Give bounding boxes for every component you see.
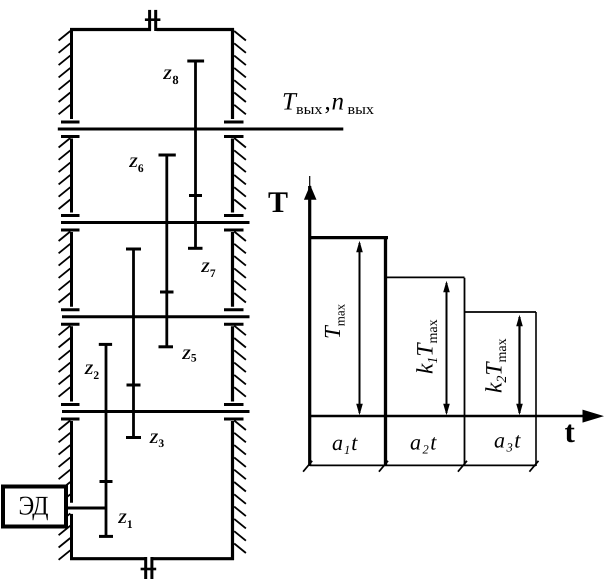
dimension line k2 Tmax (518, 317, 520, 413)
T axis arrowhead (304, 185, 317, 200)
tick slash at a1t (379, 461, 388, 472)
svg-text:t: t (565, 414, 576, 449)
bearing, shaft III left wall (61, 310, 80, 325)
gear pair z6/z5 (wheel z6 on shaft II, pinion z5 on shaft III) (159, 155, 176, 347)
Tmax dimension arrowheads (356, 241, 363, 415)
bearing, shaft I left wall (61, 122, 80, 137)
gear pair z2/z1 (wheel z2 on shaft IV, pinion z1 on motor shaft) (99, 344, 113, 536)
bearing, shaft II right wall (224, 216, 244, 231)
housing left wall (70, 28, 73, 560)
gear pair z4/z3 (wheel z4 on shaft III, pinion z3 on shaft IV) (126, 249, 141, 438)
load step 2 outline (386, 277, 465, 466)
shaft II (61, 221, 250, 224)
svg-text:n: n (332, 89, 345, 116)
dimension line k1 Tmax (446, 283, 448, 413)
bearing, shaft III right wall (224, 310, 244, 325)
svg-text:вых: вых (296, 102, 323, 118)
output label T_vyh, n_vyh (282, 89, 375, 118)
k1 Tmax dimension arrowheads (443, 281, 450, 415)
tick slash at a3t (529, 461, 538, 472)
right wall hatching (234, 31, 246, 553)
tick slash at t=0 (303, 461, 312, 472)
electric motor box (3, 487, 66, 527)
svg-text:ЭД: ЭД (19, 491, 49, 521)
chart T axis (vertical) (308, 176, 311, 466)
shaft III (62, 315, 250, 318)
left wall hatching (59, 31, 71, 560)
bearing, shaft I right wall (224, 122, 244, 137)
load step 1 outline (309, 236, 389, 466)
k2 Tmax dimension arrowheads (516, 315, 523, 415)
housing bottom wall (70, 557, 234, 560)
bearing, shaft II left wall (61, 216, 80, 231)
shaft IV (62, 410, 250, 413)
bearing, shaft IV right wall (224, 405, 244, 420)
svg-text:T: T (268, 186, 288, 219)
housing right wall (231, 28, 234, 560)
dimension line Tmax (359, 243, 361, 413)
bottom shaft-end / breather symbol (141, 557, 157, 579)
shaft I (output shaft) (58, 128, 344, 131)
svg-text:,: , (325, 89, 331, 116)
gear pair z8/z7 (wheel z8 on shaft I, pinion z7 on shaft II) (187, 61, 204, 248)
top shaft-end / breather symbol (145, 10, 161, 31)
housing top wall (70, 28, 234, 31)
tick slash at a2t (458, 461, 467, 472)
bearing, shaft IV left wall (61, 405, 80, 420)
load step 3 outline (465, 312, 537, 466)
chart t axis (horizontal) (309, 415, 585, 418)
t axis arrowhead (583, 410, 605, 423)
motor shaft (66, 507, 106, 510)
time base line (310, 464, 536, 466)
svg-text:вых: вых (348, 102, 375, 118)
